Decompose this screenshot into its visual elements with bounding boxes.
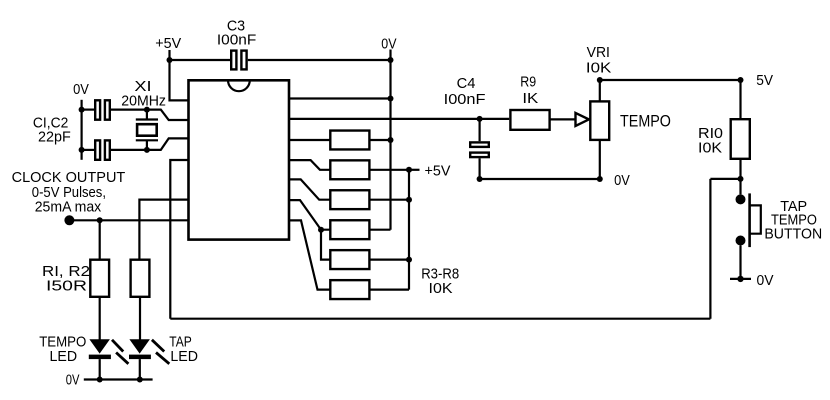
wire VR1 bottom terminal — [599, 140, 601, 179]
wire bottom long run — [170, 318, 710, 320]
label TAP TEMPO BUTTON — [764, 199, 822, 243]
svg-text:BUTTON: BUTTON — [764, 227, 822, 243]
junction dot 0V rail top — [388, 57, 394, 63]
label X1 20MHz — [121, 79, 166, 110]
junction dot R1 branch — [97, 217, 103, 223]
wire R1 branch down — [99, 220, 101, 259]
wire top rail right segment — [248, 59, 391, 61]
junction dot VR1 top — [597, 77, 603, 83]
junction dot 5V — [738, 77, 744, 83]
wire top +5V/0V rail left segment — [170, 59, 231, 61]
svg-text:0V: 0V — [73, 82, 89, 98]
junction dot LED1/0V — [97, 377, 103, 383]
wire stub above 0V dot — [389, 50, 391, 61]
label CLOCK OUTPUT — [12, 170, 126, 215]
wire 5V top right — [600, 79, 741, 81]
wire right riser down — [709, 179, 711, 319]
svg-text:I0K: I0K — [586, 60, 612, 76]
IC notch — [228, 80, 250, 91]
node 0V terminal bar button — [730, 278, 751, 280]
resistor R9 — [510, 110, 575, 130]
op-amp IC U1 body — [189, 80, 290, 239]
resistor R5 — [289, 179, 409, 209]
svg-text:0V: 0V — [381, 37, 396, 53]
svg-text:I0K: I0K — [429, 281, 453, 297]
svg-text:I00nF: I00nF — [217, 32, 257, 48]
junction dot button 0V — [737, 276, 743, 282]
wire +5V drop to IC pin — [170, 60, 189, 100]
svg-text:R9: R9 — [520, 75, 536, 91]
resistor R2 — [131, 260, 150, 297]
junction dot C4 bottom — [477, 176, 483, 182]
svg-text:I00nF: I00nF — [444, 92, 486, 108]
capacitor C4 — [470, 119, 489, 179]
wire IC clock pin to bottom run — [170, 160, 188, 319]
switch plunger bar — [748, 193, 751, 247]
wire +5V bus vertical — [408, 170, 410, 290]
wire IC right pin1 to 0V rail — [289, 97, 391, 99]
node clock output terminal — [64, 215, 74, 225]
label R9 1K — [520, 75, 538, 108]
label VR1 10K — [586, 45, 612, 77]
wire R6 node down to R7 — [321, 230, 330, 260]
wire VR1 top terminal — [599, 80, 601, 101]
label R10 10K — [698, 126, 723, 157]
label R1, R2 150R — [42, 264, 90, 295]
junction dot LED2/0V — [137, 377, 143, 383]
label TAP LED — [169, 334, 198, 365]
wire button bottom to 0V — [739, 246, 741, 279]
resistor R8 — [289, 220, 409, 299]
LED D2 tap — [129, 339, 151, 379]
svg-text:CLOCK OUTPUT: CLOCK OUTPUT — [12, 170, 126, 186]
wire IC pin to clock output — [69, 219, 188, 221]
wire bottom 0V rail — [84, 378, 153, 380]
wire IC output pin to C4/R9 — [289, 118, 509, 120]
junction dot pin1/0V bus — [388, 96, 394, 102]
junction dot R7/+5V bus — [406, 257, 412, 263]
svg-text:5V: 5V — [756, 73, 773, 89]
svg-text:VRI: VRI — [587, 45, 610, 61]
label C3 100nF — [217, 18, 257, 48]
wire R2 to LED2 — [139, 297, 141, 340]
junction dot +5V rail — [167, 57, 173, 63]
LED D1 tempo — [89, 339, 111, 379]
node 0V left rail — [80, 100, 82, 160]
resistor R4 — [289, 160, 409, 179]
resistor R7 — [330, 250, 409, 269]
junction dot xtal top — [144, 107, 150, 113]
label TEMPO LED — [39, 334, 86, 365]
capacitor C1 — [82, 100, 147, 119]
switch actuator cap — [750, 205, 761, 233]
switch tap button top contact — [736, 194, 746, 204]
svg-text:TEMPO: TEMPO — [620, 111, 671, 130]
resistor R10 — [731, 80, 750, 194]
svg-text:I50R: I50R — [46, 278, 87, 294]
wire stub above +5V dot — [168, 50, 170, 60]
svg-text:IK: IK — [522, 91, 538, 107]
svg-text:LED: LED — [170, 349, 198, 365]
wiper arrow into VR1 — [576, 113, 589, 126]
svg-text:22pF: 22pF — [38, 130, 71, 146]
wire R1 to LED1 — [99, 297, 101, 340]
svg-text:0V: 0V — [757, 273, 774, 289]
label C4 100nF — [444, 76, 486, 108]
potentiometer VR1 body — [590, 101, 609, 139]
junction dot C2/0V — [79, 147, 85, 153]
label C1,C2 22pF — [33, 115, 71, 145]
wire 0V right vertical bus — [389, 60, 391, 230]
svg-text:+5V: +5V — [155, 36, 181, 52]
crystal X1 — [136, 110, 158, 150]
wire IC pin to R2 — [139, 200, 188, 260]
junction dot VR1 bottom/0V — [597, 176, 603, 182]
junction dot R4/+5V bus — [406, 167, 412, 173]
capacitor C2 — [82, 140, 147, 159]
wire crystal top to IC pin — [147, 110, 189, 120]
junction dot C1/0V — [79, 107, 85, 113]
capacitor C3 — [231, 51, 246, 70]
LED D2 light marks — [152, 340, 169, 364]
label R3-R8 10K — [421, 267, 459, 298]
LED D1 light marks — [112, 340, 128, 364]
junction dot R6 left node — [318, 227, 324, 233]
junction dot xtal bottom — [144, 147, 150, 153]
junction dot C4 top — [477, 116, 483, 122]
svg-text:I0K: I0K — [698, 140, 722, 156]
svg-text:+5V: +5V — [425, 164, 451, 180]
resistor R3 — [289, 131, 391, 150]
svg-text:20MHz: 20MHz — [121, 93, 166, 109]
svg-text:LED: LED — [50, 349, 78, 365]
junction dot R3/0V bus — [388, 137, 394, 143]
wire +5V stub — [409, 169, 420, 171]
wire R10 bottom to left riser — [710, 178, 740, 180]
wire crystal bottom to IC pin — [147, 138, 189, 150]
switch tap button bottom contact — [736, 236, 746, 246]
resistor R6 — [289, 200, 391, 239]
svg-text:0V: 0V — [614, 173, 630, 189]
junction dot R5/+5V bus — [406, 197, 412, 203]
svg-text:0V: 0V — [66, 372, 80, 388]
svg-text:25mA max: 25mA max — [35, 199, 102, 215]
svg-text:C4: C4 — [457, 76, 476, 92]
resistor R1 — [90, 260, 109, 297]
junction dot R10 bottom — [738, 176, 744, 182]
wire 0V mid — [480, 178, 600, 180]
